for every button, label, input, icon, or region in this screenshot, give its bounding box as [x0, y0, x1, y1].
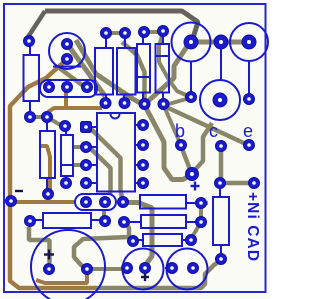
svg-text:e: e — [243, 121, 253, 141]
svg-text:b: b — [175, 121, 185, 141]
svg-text:+Ni CAD: +Ni CAD — [244, 192, 261, 262]
svg-text:c: c — [209, 121, 218, 141]
